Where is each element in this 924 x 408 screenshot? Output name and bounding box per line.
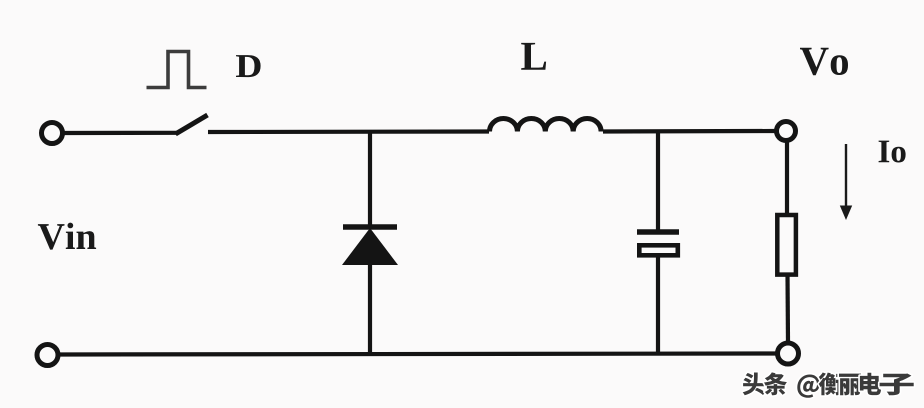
diode D1 triangle	[342, 228, 398, 265]
pulse waveform symbol	[147, 52, 207, 88]
watermark 头条@衡丽电子	[743, 372, 914, 397]
diode D1 cathode bar	[343, 224, 397, 230]
wire node to resistor	[785, 141, 789, 217]
terminal bottom-left	[37, 345, 58, 366]
wire resistor to bottom terminal	[785, 274, 790, 343]
label Vin	[38, 223, 96, 250]
wire top-left segment	[65, 131, 178, 135]
terminal bottom-right	[778, 343, 799, 364]
arrow Io	[840, 144, 852, 220]
terminal top-left	[42, 123, 63, 144]
capacitor C bottom plate	[639, 245, 678, 255]
terminal top-right	[777, 122, 796, 141]
inductor L	[490, 118, 602, 131]
label L	[521, 43, 546, 70]
capacitor C top plate	[637, 229, 679, 235]
capacitor branch wire (bottom)	[656, 256, 660, 354]
diode branch wire (node to diode)	[368, 132, 372, 229]
label D	[236, 55, 261, 77]
wire top-right segment	[603, 129, 775, 134]
bottom wire	[60, 354, 777, 355]
capacitor branch wire (top)	[656, 132, 660, 231]
diode branch wire (diode to bottom)	[368, 262, 372, 354]
switch S blade	[176, 115, 208, 134]
label Io	[879, 141, 906, 163]
wire top segment after switch	[208, 129, 489, 134]
resistor R	[777, 215, 796, 275]
label Vo	[800, 48, 848, 75]
